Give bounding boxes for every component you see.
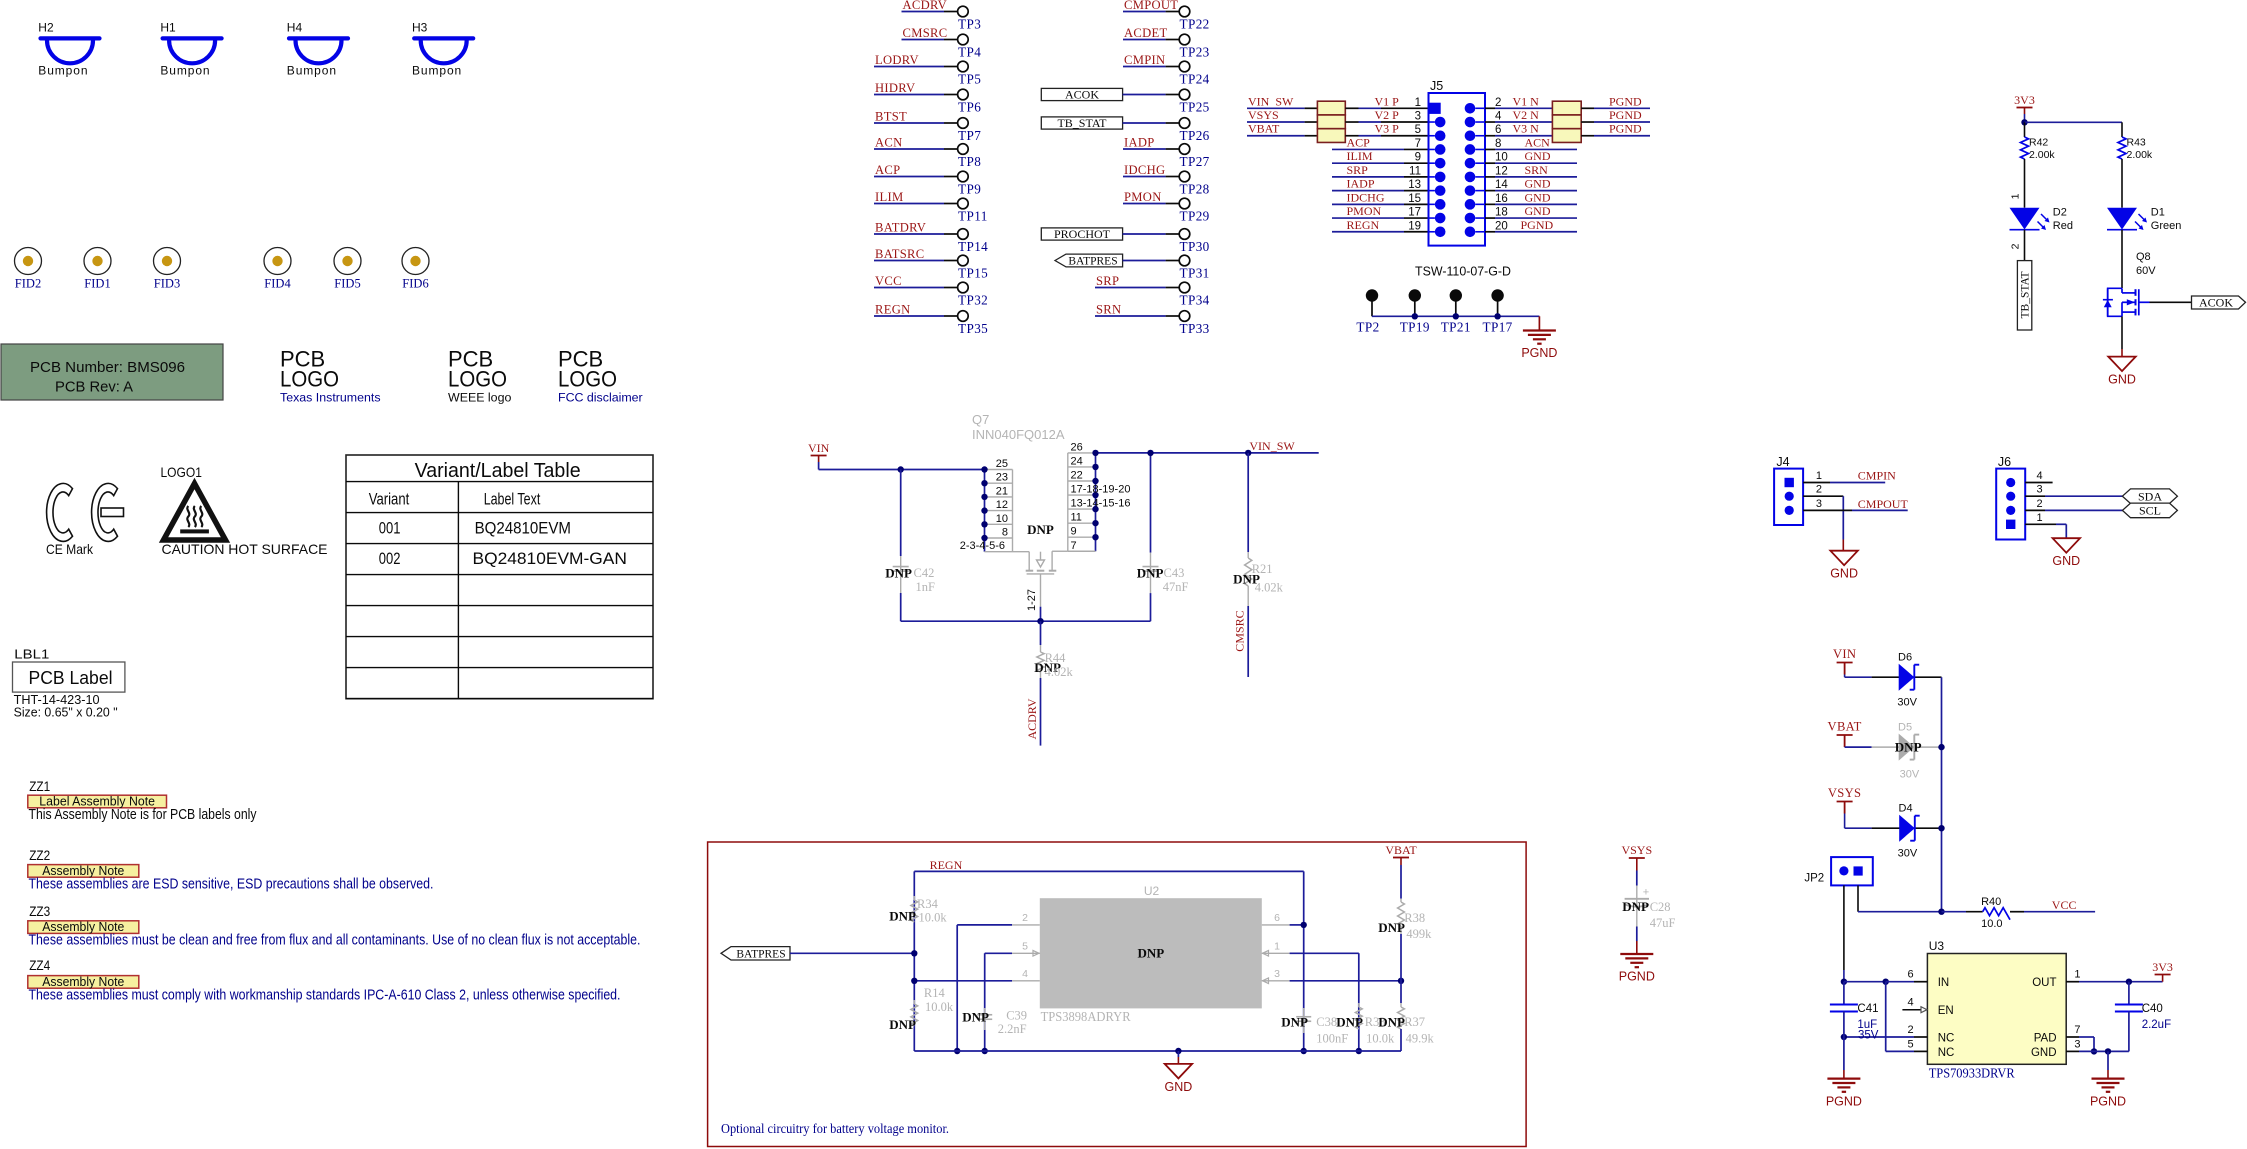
svg-text:C39: C39: [1006, 1009, 1027, 1023]
svg-text:IDCHG: IDCHG: [1347, 190, 1385, 204]
svg-text:001: 001: [379, 519, 401, 538]
svg-text:LBL1: LBL1: [14, 647, 49, 662]
svg-text:1: 1: [1816, 470, 1822, 482]
svg-text:TP21: TP21: [1441, 320, 1471, 335]
svg-text:PGND: PGND: [1521, 218, 1554, 232]
svg-text:TPS70933DRVR: TPS70933DRVR: [1929, 1067, 2016, 1082]
svg-text:VIN: VIN: [808, 441, 830, 455]
svg-text:30V: 30V: [1897, 697, 1917, 709]
svg-text:ACN: ACN: [875, 136, 903, 150]
svg-text:ACN: ACN: [1525, 135, 1551, 149]
svg-text:R37: R37: [1404, 1015, 1425, 1029]
svg-text:DNP: DNP: [889, 909, 916, 924]
svg-text:BQ24810EVM-GAN: BQ24810EVM-GAN: [473, 549, 627, 568]
svg-text:D4: D4: [1899, 803, 1913, 815]
svg-text:21: 21: [996, 485, 1008, 497]
svg-text:C40: C40: [2142, 1003, 2163, 1015]
svg-text:R42: R42: [2029, 137, 2048, 149]
svg-text:4.02k: 4.02k: [1045, 665, 1074, 679]
svg-text:REGN: REGN: [1347, 218, 1380, 232]
svg-text:IADP: IADP: [1347, 177, 1375, 191]
svg-text:GND: GND: [1525, 204, 1551, 218]
svg-text:PCB Number: BMS096: PCB Number: BMS096: [30, 359, 185, 376]
svg-text:FID3: FID3: [154, 277, 180, 291]
svg-text:TP3: TP3: [958, 16, 981, 31]
svg-text:PGND: PGND: [1521, 346, 1557, 360]
svg-text:TP8: TP8: [958, 154, 981, 169]
svg-text:Bumpon: Bumpon: [160, 64, 210, 78]
svg-text:2: 2: [1022, 912, 1028, 924]
svg-text:V2 P: V2 P: [1375, 108, 1400, 122]
svg-text:24: 24: [1071, 455, 1083, 467]
svg-text:NC: NC: [1938, 1033, 1955, 1045]
svg-text:PGND: PGND: [1609, 94, 1642, 108]
svg-text:CMPIN: CMPIN: [1858, 469, 1896, 483]
svg-text:GND: GND: [2108, 373, 2136, 387]
svg-text:3V3: 3V3: [2152, 960, 2173, 974]
svg-text:U2: U2: [1144, 884, 1160, 898]
svg-text:11: 11: [1071, 512, 1082, 524]
svg-text:ACOK: ACOK: [2199, 296, 2233, 310]
svg-text:6: 6: [1495, 124, 1501, 136]
svg-text:V3 P: V3 P: [1375, 122, 1400, 136]
svg-text:TP15: TP15: [958, 265, 988, 280]
svg-text:These assemblies must be clean: These assemblies must be clean and free …: [29, 932, 641, 949]
svg-text:TP30: TP30: [1180, 239, 1210, 254]
svg-text:9: 9: [1071, 526, 1077, 538]
svg-text:4: 4: [1495, 111, 1502, 123]
svg-text:15: 15: [1408, 193, 1421, 205]
svg-text:C41: C41: [1857, 1003, 1878, 1015]
svg-text:PGND: PGND: [1619, 970, 1655, 984]
svg-text:DNP: DNP: [885, 566, 912, 581]
svg-text:J5: J5: [1430, 79, 1443, 93]
svg-text:18: 18: [1495, 207, 1508, 219]
svg-text:REGN: REGN: [930, 858, 963, 872]
svg-text:Bumpon: Bumpon: [287, 64, 337, 78]
svg-text:SRN: SRN: [1525, 163, 1549, 177]
svg-text:4: 4: [1022, 968, 1028, 980]
svg-text:ILIM: ILIM: [875, 190, 903, 204]
svg-text:FID1: FID1: [84, 277, 110, 291]
svg-text:ZZ4: ZZ4: [29, 957, 50, 973]
svg-text:R14: R14: [924, 986, 946, 1000]
svg-text:2: 2: [2010, 243, 2022, 249]
svg-text:CMPOUT: CMPOUT: [1858, 497, 1909, 511]
svg-text:VIN: VIN: [1833, 647, 1856, 661]
svg-text:TP33: TP33: [1180, 321, 1210, 336]
svg-text:PCB Rev: A: PCB Rev: A: [55, 379, 133, 396]
svg-text:Size: 0.65" x 0.20 ": Size: 0.65" x 0.20 ": [14, 705, 118, 720]
svg-text:This Assembly Note is for PCB: This Assembly Note is for PCB labels onl…: [29, 806, 257, 823]
svg-text:2.2uF: 2.2uF: [2142, 1019, 2171, 1031]
svg-text:SRN: SRN: [1096, 303, 1121, 317]
svg-text:LODRV: LODRV: [875, 53, 919, 67]
svg-text:Variant: Variant: [369, 490, 410, 509]
svg-text:These assemblies are ESD sensi: These assemblies are ESD sensitive, ESD …: [29, 875, 434, 892]
svg-text:VBAT: VBAT: [1385, 843, 1417, 857]
svg-text:VBAT: VBAT: [1828, 720, 1862, 734]
svg-text:8: 8: [1495, 138, 1501, 150]
svg-text:C38: C38: [1316, 1015, 1337, 1029]
svg-text:ILIM: ILIM: [1347, 149, 1373, 163]
svg-text:10.0k: 10.0k: [1366, 1032, 1395, 1046]
svg-text:V1 P: V1 P: [1375, 94, 1400, 108]
svg-text:H2: H2: [38, 21, 54, 35]
svg-text:V2 N: V2 N: [1513, 108, 1540, 122]
svg-text:26: 26: [1071, 441, 1083, 453]
svg-text:1nF: 1nF: [916, 580, 936, 594]
svg-text:35V: 35V: [1858, 1029, 1879, 1041]
svg-text:Green: Green: [2151, 220, 2182, 232]
svg-text:HIDRV: HIDRV: [875, 81, 915, 95]
svg-text:4: 4: [2037, 470, 2043, 482]
svg-text:PMON: PMON: [1124, 190, 1162, 204]
svg-text:Bumpon: Bumpon: [412, 64, 462, 78]
svg-text:5: 5: [1907, 1038, 1913, 1050]
svg-text:SCL: SCL: [2139, 504, 2161, 518]
svg-text:TP17: TP17: [1483, 320, 1513, 335]
svg-text:2.00k: 2.00k: [2127, 149, 2153, 161]
svg-text:12: 12: [1495, 165, 1508, 177]
svg-text:NC: NC: [1938, 1047, 1955, 1059]
svg-text:LOGO: LOGO: [558, 367, 617, 392]
svg-text:TB_STAT: TB_STAT: [1057, 116, 1107, 130]
svg-text:Texas Instruments: Texas Instruments: [280, 391, 381, 405]
svg-text:WEEE logo: WEEE logo: [448, 391, 511, 405]
svg-text:3: 3: [1274, 968, 1280, 980]
svg-text:3: 3: [1415, 111, 1421, 123]
svg-text:ACOK: ACOK: [1065, 88, 1099, 102]
svg-text:BQ24810EVM: BQ24810EVM: [475, 519, 571, 538]
svg-text:TP29: TP29: [1180, 208, 1210, 223]
svg-text:6: 6: [1907, 969, 1913, 981]
svg-text:2-3-4-5-6: 2-3-4-5-6: [960, 540, 1005, 552]
svg-text:1-27: 1-27: [1026, 589, 1038, 611]
svg-text:2.00k: 2.00k: [2029, 149, 2055, 161]
svg-text:TP35: TP35: [958, 321, 988, 336]
svg-text:1: 1: [2010, 193, 2022, 199]
svg-text:Variant/Label Table: Variant/Label Table: [415, 460, 581, 482]
svg-text:H3: H3: [412, 21, 428, 35]
svg-text:19: 19: [1408, 220, 1421, 232]
svg-text:PCB Label: PCB Label: [29, 667, 113, 688]
svg-text:DNP: DNP: [1378, 920, 1405, 935]
svg-text:LOGO: LOGO: [280, 367, 339, 392]
svg-text:5: 5: [1022, 940, 1028, 952]
svg-text:30V: 30V: [1900, 769, 1920, 781]
svg-text:22: 22: [1071, 470, 1083, 482]
svg-text:DNP: DNP: [1137, 946, 1164, 961]
svg-text:TP5: TP5: [958, 71, 981, 86]
svg-text:DNP: DNP: [1622, 899, 1649, 914]
svg-text:VIN SW: VIN SW: [1248, 94, 1294, 108]
svg-text:GND: GND: [1165, 1080, 1193, 1094]
svg-text:DNP: DNP: [1027, 522, 1054, 537]
svg-text:C42: C42: [914, 566, 935, 580]
svg-text:14: 14: [1495, 179, 1508, 191]
svg-text:DNP: DNP: [1336, 1015, 1363, 1030]
svg-text:DNP: DNP: [1895, 740, 1922, 755]
svg-text:ACDRV: ACDRV: [1025, 698, 1039, 739]
svg-text:Optional circuitry for battery: Optional circuitry for battery voltage m…: [721, 1121, 949, 1136]
svg-text:PGND: PGND: [1609, 108, 1642, 122]
svg-text:DNP: DNP: [1281, 1015, 1308, 1030]
svg-text:TP7: TP7: [958, 128, 981, 143]
svg-text:10.0k: 10.0k: [925, 1000, 954, 1014]
svg-text:PROCHOT: PROCHOT: [1054, 227, 1111, 241]
svg-text:BTST: BTST: [875, 110, 907, 124]
svg-text:4.02k: 4.02k: [1255, 581, 1284, 595]
svg-text:5: 5: [1415, 124, 1421, 136]
svg-text:7: 7: [1071, 540, 1077, 552]
svg-text:TP31: TP31: [1180, 265, 1210, 280]
svg-text:TP24: TP24: [1180, 71, 1210, 86]
svg-text:10.0: 10.0: [1981, 918, 2002, 930]
svg-text:002: 002: [379, 549, 401, 568]
svg-text:TP14: TP14: [958, 239, 988, 254]
svg-text:TP9: TP9: [958, 181, 981, 196]
svg-text:ZZ2: ZZ2: [29, 847, 50, 863]
svg-text:TP32: TP32: [958, 292, 988, 307]
svg-text:TSW-110-07-G-D: TSW-110-07-G-D: [1415, 264, 1511, 279]
svg-text:3: 3: [1816, 498, 1822, 510]
svg-text:FID5: FID5: [334, 277, 360, 291]
svg-text:TP27: TP27: [1180, 154, 1210, 169]
svg-text:PAD: PAD: [2034, 1033, 2057, 1045]
svg-text:9: 9: [1415, 152, 1421, 164]
svg-text:SRP: SRP: [1096, 274, 1119, 288]
svg-text:DNP: DNP: [1137, 566, 1164, 581]
svg-text:IADP: IADP: [1124, 136, 1155, 150]
svg-text:47nF: 47nF: [1163, 580, 1189, 594]
svg-text:JP2: JP2: [1804, 873, 1824, 885]
svg-text:1: 1: [1274, 940, 1280, 952]
svg-text:47uF: 47uF: [1650, 916, 1676, 930]
svg-text:1: 1: [2074, 969, 2080, 981]
svg-text:TP2: TP2: [1356, 320, 1379, 335]
svg-text:TP26: TP26: [1180, 128, 1210, 143]
svg-text:PMON: PMON: [1347, 204, 1382, 218]
svg-text:LOGO1: LOGO1: [161, 464, 203, 480]
svg-text:ZZ1: ZZ1: [29, 778, 50, 794]
svg-text:Q8: Q8: [2136, 251, 2151, 263]
svg-text:BATSRC: BATSRC: [875, 247, 924, 261]
svg-text:TP22: TP22: [1180, 16, 1210, 31]
svg-text:23: 23: [996, 472, 1008, 484]
svg-text:GND: GND: [1525, 149, 1551, 163]
svg-text:FID2: FID2: [15, 277, 41, 291]
svg-text:ACP: ACP: [875, 163, 900, 177]
svg-text:2: 2: [1495, 97, 1501, 109]
svg-text:10.0k: 10.0k: [919, 911, 948, 925]
svg-text:CMSRC: CMSRC: [903, 26, 948, 40]
svg-text:4: 4: [1907, 997, 1913, 1009]
svg-text:C28: C28: [1650, 900, 1671, 914]
svg-text:20: 20: [1495, 220, 1508, 232]
svg-text:D2: D2: [2053, 207, 2067, 219]
svg-text:OUT: OUT: [2032, 977, 2056, 989]
svg-text:INN040FQ012A: INN040FQ012A: [972, 427, 1065, 442]
svg-text:Red: Red: [2053, 220, 2073, 232]
svg-text:TP19: TP19: [1400, 320, 1430, 335]
svg-text:SRP: SRP: [1347, 163, 1369, 177]
svg-text:H1: H1: [160, 21, 176, 35]
svg-text:1: 1: [2037, 512, 2043, 524]
svg-text:IN: IN: [1938, 977, 1950, 989]
svg-text:LOGO: LOGO: [448, 367, 507, 392]
svg-text:R38: R38: [1404, 911, 1425, 925]
svg-text:VBAT: VBAT: [1248, 122, 1280, 136]
svg-text:11: 11: [1409, 165, 1421, 177]
svg-text:VIN_SW: VIN_SW: [1249, 439, 1295, 453]
svg-text:Label Text: Label Text: [484, 490, 541, 509]
svg-text:Bumpon: Bumpon: [38, 64, 88, 78]
svg-text:Q7: Q7: [972, 412, 989, 427]
svg-text:ACDET: ACDET: [1124, 26, 1167, 40]
svg-text:25: 25: [996, 458, 1008, 470]
svg-text:49.9k: 49.9k: [1406, 1032, 1435, 1046]
svg-text:D6: D6: [1898, 652, 1912, 664]
svg-text:17: 17: [1408, 207, 1421, 219]
svg-text:60V: 60V: [2136, 265, 2156, 277]
svg-text:VCC: VCC: [875, 274, 902, 288]
svg-text:2: 2: [1816, 484, 1822, 496]
svg-text:BATDRV: BATDRV: [875, 221, 926, 235]
svg-text:1: 1: [1415, 97, 1421, 109]
svg-text:16: 16: [1495, 193, 1508, 205]
svg-text:BATPRES: BATPRES: [736, 949, 785, 961]
svg-text:10: 10: [996, 513, 1008, 525]
svg-text:TP28: TP28: [1180, 181, 1210, 196]
svg-text:PGND: PGND: [1609, 122, 1642, 136]
svg-text:U3: U3: [1929, 939, 1945, 953]
svg-text:VSYS: VSYS: [1248, 108, 1279, 122]
svg-text:IDCHG: IDCHG: [1124, 163, 1165, 177]
svg-text:13: 13: [1408, 179, 1421, 191]
svg-text:ACDRV: ACDRV: [903, 0, 948, 12]
svg-text:6: 6: [1274, 912, 1280, 924]
svg-text:PGND: PGND: [2090, 1094, 2126, 1108]
svg-text:2: 2: [2037, 498, 2043, 510]
svg-text:CE Mark: CE Mark: [46, 541, 94, 557]
svg-text:ACP: ACP: [1347, 135, 1371, 149]
svg-text:TP23: TP23: [1180, 44, 1210, 59]
svg-text:CMPIN: CMPIN: [1124, 53, 1165, 67]
svg-text:DNP: DNP: [889, 1017, 916, 1032]
svg-text:DNP: DNP: [962, 1010, 989, 1025]
svg-text:ZZ3: ZZ3: [29, 903, 50, 919]
svg-text:TP4: TP4: [958, 44, 981, 59]
svg-text:V1 N: V1 N: [1513, 94, 1540, 108]
svg-text:2.2nF: 2.2nF: [998, 1022, 1027, 1036]
svg-text:FID4: FID4: [264, 277, 291, 291]
svg-text:TP34: TP34: [1180, 292, 1210, 307]
svg-text:J6: J6: [1998, 455, 2011, 469]
svg-text:CMSRC: CMSRC: [1233, 610, 1247, 651]
svg-text:499k: 499k: [1406, 927, 1432, 941]
svg-text:EN: EN: [1938, 1005, 1954, 1017]
svg-text:2: 2: [1907, 1024, 1913, 1036]
svg-text:H4: H4: [287, 21, 303, 35]
svg-text:BATPRES: BATPRES: [1068, 256, 1117, 268]
svg-text:REGN: REGN: [875, 303, 910, 317]
svg-text:TP6: TP6: [958, 99, 981, 114]
svg-text:R34: R34: [917, 897, 939, 911]
svg-text:These assemblies must comply w: These assemblies must comply with workma…: [29, 986, 621, 1003]
svg-text:7: 7: [2074, 1024, 2080, 1036]
svg-text:PGND: PGND: [1826, 1094, 1862, 1108]
svg-text:GND: GND: [1525, 190, 1551, 204]
svg-text:30V: 30V: [1898, 848, 1918, 860]
svg-text:FCC disclaimer: FCC disclaimer: [558, 391, 643, 405]
svg-text:V3 N: V3 N: [1513, 122, 1540, 136]
svg-text:D1: D1: [2151, 207, 2165, 219]
svg-text:C43: C43: [1164, 566, 1185, 580]
svg-text:GND: GND: [1830, 567, 1858, 581]
svg-text:13-14-15-16: 13-14-15-16: [1071, 498, 1131, 510]
svg-text:R40: R40: [1981, 896, 2001, 908]
svg-text:FID6: FID6: [402, 277, 428, 291]
svg-text:+: +: [1643, 887, 1649, 899]
svg-text:GND: GND: [1525, 177, 1551, 191]
svg-text:DNP: DNP: [1378, 1015, 1405, 1030]
svg-text:TP25: TP25: [1180, 99, 1210, 114]
svg-text:7: 7: [1415, 138, 1421, 150]
svg-text:VSYS: VSYS: [1621, 843, 1652, 857]
svg-text:10: 10: [1495, 152, 1508, 164]
svg-text:17-18-19-20: 17-18-19-20: [1071, 484, 1131, 496]
svg-text:TP11: TP11: [958, 208, 988, 223]
svg-text:CMPOUT: CMPOUT: [1124, 0, 1178, 12]
svg-text:CAUTION HOT SURFACE: CAUTION HOT SURFACE: [162, 541, 328, 557]
svg-text:3V3: 3V3: [2014, 93, 2035, 107]
svg-text:J4: J4: [1776, 455, 1789, 469]
svg-text:TPS3898ADRYR: TPS3898ADRYR: [1041, 1010, 1132, 1025]
svg-text:8: 8: [1002, 527, 1008, 539]
svg-text:100nF: 100nF: [1316, 1032, 1348, 1046]
svg-text:TB_STAT: TB_STAT: [2020, 272, 2032, 319]
svg-text:VCC: VCC: [2052, 898, 2077, 912]
svg-text:VSYS: VSYS: [1828, 786, 1861, 800]
svg-text:12: 12: [996, 499, 1008, 511]
svg-text:SDA: SDA: [2138, 490, 2162, 504]
svg-text:3: 3: [2074, 1038, 2080, 1050]
svg-text:GND: GND: [2052, 554, 2080, 568]
svg-text:GND: GND: [2031, 1047, 2057, 1059]
svg-text:D5: D5: [1898, 722, 1912, 734]
svg-text:3: 3: [2037, 484, 2043, 496]
svg-text:R43: R43: [2127, 137, 2146, 149]
